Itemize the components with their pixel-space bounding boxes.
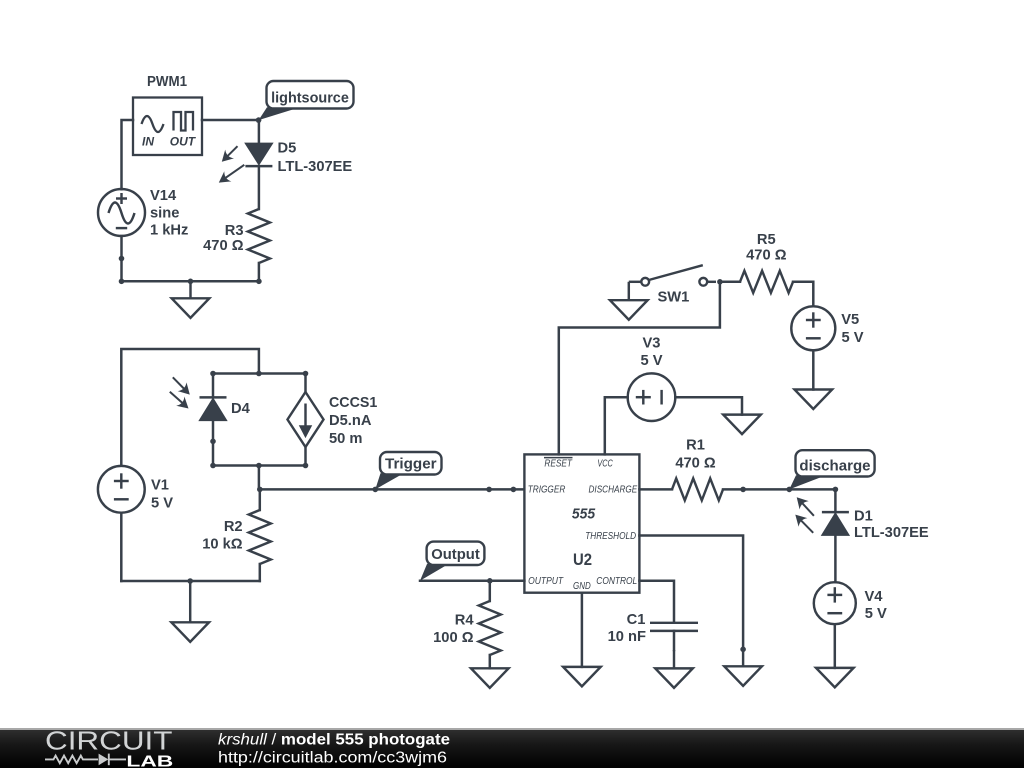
flag Output	[420, 542, 484, 581]
junction dot loop top right	[303, 371, 309, 377]
wire trigger node to R2	[259, 489, 262, 510]
voltage source V14 sine	[98, 189, 145, 236]
junction dot loop bottom right	[303, 463, 309, 469]
wire V1 bottom to rail	[120, 513, 123, 581]
wire bottom-left ground rail	[121, 580, 259, 583]
junction dot trigger pin	[511, 487, 517, 493]
junction dot node lightsource	[256, 117, 262, 123]
junction dot rail ground tap bottom-left	[187, 578, 193, 584]
svg-text:LTL-307EE: LTL-307EE	[278, 159, 353, 175]
wire RESET net vertical	[559, 282, 720, 455]
photon arrow D1 lower	[795, 515, 813, 533]
resistor R2 10k	[249, 510, 271, 564]
junction dot trigger left	[257, 487, 263, 493]
photon arrow D5 lower	[219, 165, 245, 183]
svg-text:1 kHz: 1 kHz	[150, 223, 188, 239]
svg-text:50 m: 50 m	[329, 431, 362, 447]
photon arrow D5 upper	[222, 146, 238, 162]
ground V3	[723, 415, 761, 435]
ground R4	[471, 668, 509, 688]
svg-text:5 V: 5 V	[865, 606, 887, 622]
wire R5 to V5	[793, 282, 813, 307]
wire DISCHARGE pin to R1	[639, 488, 672, 491]
wire D5 cathode to R3	[258, 166, 261, 209]
svg-text:R1: R1	[686, 438, 705, 454]
svg-text:lightsource: lightsource	[271, 90, 349, 106]
junction dot loop top left	[210, 371, 216, 377]
junction dot discharge corner	[833, 487, 839, 493]
LED D1 LTL-307EE	[822, 512, 849, 535]
op-amp U2 555 box	[524, 454, 639, 592]
resistor R3 470	[248, 209, 270, 263]
svg-text:10 kΩ: 10 kΩ	[202, 536, 243, 552]
svg-text:V1: V1	[151, 478, 169, 494]
wire R2 bottom to rail	[259, 564, 262, 581]
junction dot loop top mid	[256, 371, 262, 377]
capacitor C1 10nF	[650, 623, 698, 631]
ground V5	[795, 390, 833, 410]
junction dot rail right corner	[256, 279, 262, 285]
svg-text:5 V: 5 V	[842, 330, 864, 346]
wire R4 to ground	[489, 655, 492, 668]
svg-text:THRESHOLD: THRESHOLD	[585, 531, 636, 542]
resistor R4 100	[479, 601, 501, 655]
svg-text:krshull / model 555 photogate: krshull / model 555 photogate	[218, 732, 450, 749]
wire photodiode loop top rail	[213, 372, 306, 375]
svg-text:IN: IN	[142, 134, 154, 148]
wire PWM1.OUT to node lightsource	[202, 119, 259, 122]
svg-text:LAB: LAB	[126, 753, 173, 768]
wire V5 to ground	[812, 350, 815, 389]
wire OUTPUT net	[420, 580, 524, 583]
resistor R1 470	[672, 478, 723, 500]
svg-text:R3: R3	[225, 223, 244, 239]
voltage source V5	[791, 306, 835, 350]
junction dot rail left corner	[119, 279, 125, 285]
svg-text:470 Ω: 470 Ω	[203, 238, 244, 254]
wire V4 to ground	[834, 624, 837, 668]
U2 pin label RESET overline	[544, 457, 573, 459]
svg-text:C1: C1	[627, 612, 646, 628]
svg-text:D4: D4	[231, 401, 251, 417]
wire discharge node to D1	[834, 489, 837, 512]
photon arrow D4 lower	[170, 392, 189, 409]
junction dot SW1 node	[717, 279, 723, 285]
wire D4 anode to loop bottom	[212, 420, 215, 466]
wire V3 to VCC	[605, 397, 628, 454]
svg-text:V14: V14	[150, 188, 177, 204]
svg-text:R5: R5	[757, 232, 776, 248]
svg-text:470 Ω: 470 Ω	[746, 248, 787, 264]
wire R1 to discharge node	[723, 488, 835, 491]
svg-text:V4: V4	[865, 589, 884, 605]
ground C1	[655, 650, 693, 688]
wire C1 to ground	[673, 631, 676, 650]
svg-text:V3: V3	[643, 336, 661, 352]
svg-text:Trigger: Trigger	[385, 456, 437, 472]
photodiode D4	[200, 397, 227, 420]
svg-text:10 nF: 10 nF	[608, 629, 646, 645]
svg-text:SW1: SW1	[658, 290, 690, 306]
wire CONTROL to C1	[639, 581, 674, 623]
wire CCCS1 bottom stem	[304, 447, 307, 466]
wire output to R4	[489, 581, 492, 601]
wire V14 bottom to rail	[120, 236, 123, 281]
svg-text:Output: Output	[431, 547, 480, 563]
wire THRESHOLD net	[639, 536, 743, 650]
svg-text:100 Ω: 100 Ω	[433, 630, 474, 646]
wire V3 to ground	[675, 397, 742, 414]
CircuitLab footer bar	[0, 728, 1024, 768]
wire loop to trigger node	[258, 466, 261, 490]
svg-text:5 V: 5 V	[640, 353, 662, 369]
junction dot output R4 tap	[487, 578, 493, 584]
wire GND pin to ground	[581, 593, 584, 667]
current source CCCS1 diamond	[288, 392, 324, 447]
svg-text:CONTROL: CONTROL	[596, 576, 637, 587]
ground V4	[816, 668, 854, 688]
switch SW1	[629, 265, 716, 285]
LED D5 LTL-307EE	[245, 144, 272, 166]
flag Trigger	[375, 452, 441, 489]
wire lightsource node to D5 anode	[258, 120, 261, 144]
svg-text:D5.nA: D5.nA	[329, 413, 372, 429]
junction dot loop bottom left	[210, 463, 216, 469]
wire CCCS1 top stem	[304, 374, 307, 393]
voltage source V1	[98, 466, 145, 513]
junction dot rail ground tap	[188, 279, 194, 285]
wire top-left ground rail	[122, 280, 259, 283]
wire R3 bottom to rail	[258, 263, 261, 281]
junction dot discharge flag anchor	[787, 487, 793, 493]
svg-text:470 Ω: 470 Ω	[675, 456, 716, 472]
PWM1 behavioral source box	[133, 98, 202, 156]
svg-text:PWM1: PWM1	[147, 74, 187, 90]
junction dot V14 wire joint	[119, 256, 125, 262]
wire loop top to D4 cathode	[212, 374, 215, 398]
svg-text:TRIGGER: TRIGGER	[528, 485, 566, 496]
svg-text:OUT: OUT	[170, 134, 197, 148]
footer title text	[218, 732, 450, 767]
wire V1 top to loop	[121, 349, 259, 466]
resistor R5 470	[740, 271, 793, 293]
wire SW1 to R5	[720, 281, 740, 284]
svg-text:DISCHARGE: DISCHARGE	[589, 485, 638, 496]
svg-text:LTL-307EE: LTL-307EE	[854, 525, 929, 541]
flag discharge	[789, 450, 874, 489]
svg-text:5 V: 5 V	[151, 496, 173, 512]
CircuitLab logo	[0, 728, 520, 768]
wire photodiode loop bottom rail	[213, 464, 306, 467]
svg-text:discharge: discharge	[799, 458, 870, 474]
svg-text:U2: U2	[573, 550, 592, 569]
junction dot discharge joint	[740, 487, 746, 493]
wire D1 to V4	[834, 535, 837, 583]
svg-text:CCCS1: CCCS1	[329, 395, 377, 411]
svg-text:sine: sine	[150, 205, 179, 221]
ground threshold	[724, 649, 762, 686]
wire PWM1.IN to V14 top	[122, 120, 134, 189]
wire trigger net	[259, 488, 525, 491]
voltage source V4	[814, 582, 856, 624]
ground SW1	[610, 282, 648, 320]
junction dot trigger joint	[486, 487, 492, 493]
junction dot D4 anode joint	[210, 439, 216, 445]
voltage source V3	[628, 373, 676, 421]
photon arrow D4 upper	[173, 377, 190, 394]
junction dot loop bottom mid	[256, 463, 262, 469]
svg-text:555: 555	[572, 507, 596, 523]
junction dot threshold ground joint	[740, 647, 746, 653]
svg-text:http://circuitlab.com/cc3wjm6: http://circuitlab.com/cc3wjm6	[218, 750, 447, 767]
svg-text:GND: GND	[573, 581, 591, 592]
svg-text:VCC: VCC	[597, 459, 613, 470]
ground top-left	[172, 281, 210, 318]
photon arrow D1 upper	[797, 497, 814, 516]
svg-text:V5: V5	[841, 312, 859, 328]
ground bottom-left	[171, 581, 209, 642]
svg-text:CIRCUIT: CIRCUIT	[45, 728, 173, 756]
junction dot trigger flag anchor	[373, 487, 379, 493]
flag lightsource	[259, 81, 354, 120]
svg-text:D5: D5	[278, 141, 297, 157]
svg-text:D1: D1	[854, 509, 873, 525]
svg-text:OUTPUT: OUTPUT	[528, 576, 564, 587]
svg-text:RESET: RESET	[544, 459, 572, 470]
ground U2 GND	[563, 667, 601, 687]
svg-text:R4: R4	[455, 613, 475, 629]
svg-text:R2: R2	[224, 519, 243, 535]
